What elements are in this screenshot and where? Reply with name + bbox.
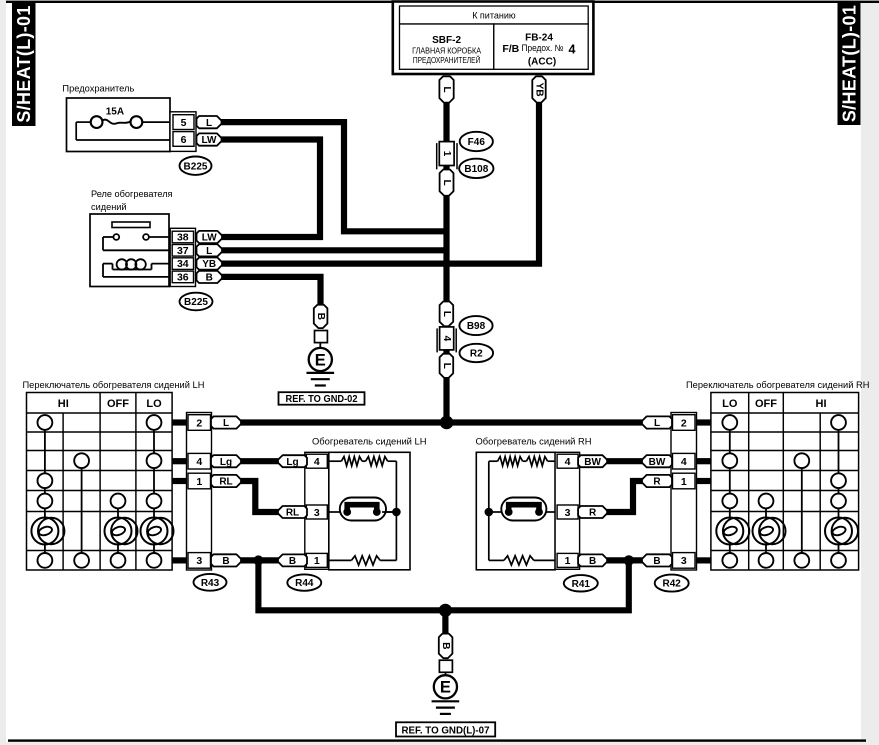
- wire L from SBF-2 down to bus: [443, 98, 449, 424]
- terminal 37 L: [197, 244, 223, 256]
- connector label R43: [194, 574, 227, 591]
- stub LH switch pin1: [172, 478, 188, 484]
- label REF. TO GND-02: [279, 392, 365, 405]
- power box К питанию: [393, 2, 594, 75]
- stub LH switch pin4: [172, 458, 188, 464]
- terminal 2 L RH: [642, 416, 672, 428]
- stub RH switch pin1: [695, 478, 711, 484]
- RH switch contacts column LO: [729, 430, 731, 453]
- svg-text:B98: B98: [467, 321, 486, 332]
- RH heater connector R41: [555, 452, 580, 569]
- svg-text:2: 2: [196, 417, 202, 429]
- terminal B ground branch: [314, 305, 328, 328]
- RH heater element bottom: [489, 559, 504, 561]
- terminal 1 RL LH: [211, 475, 241, 487]
- LH heater box: [329, 452, 410, 570]
- fuse element circles: [76, 121, 91, 123]
- svg-text:B225: B225: [184, 161, 208, 172]
- terminal 3 R heater RH: [578, 506, 607, 518]
- svg-text:R: R: [653, 477, 661, 488]
- svg-text:3: 3: [565, 507, 571, 519]
- connector label R41: [564, 575, 598, 591]
- RH thermal switch: [489, 511, 502, 513]
- stub LH switch pin3: [172, 557, 188, 563]
- svg-text:F/B: F/B: [502, 43, 519, 55]
- terminal 4 Lg LH: [211, 455, 241, 467]
- terminal 34 YB: [197, 258, 223, 270]
- LH heater element bottom: [329, 559, 352, 561]
- svg-text:Обогреватель сидений LH: Обогреватель сидений LH: [312, 435, 427, 446]
- terminal 36 B: [197, 271, 223, 283]
- svg-text:E: E: [440, 679, 451, 697]
- terminal 3 B RH: [642, 554, 672, 566]
- svg-text:OFF: OFF: [755, 398, 777, 410]
- svg-text:1: 1: [565, 555, 571, 567]
- svg-text:Переключатель обогревателя сид: Переключатель обогревателя сидений RH: [686, 380, 869, 390]
- ground symbol GND-02: [307, 372, 335, 374]
- svg-text:Обогреватель сидений RH: Обогреватель сидений RH: [476, 435, 592, 446]
- svg-text:L: L: [654, 418, 660, 429]
- junction dot RH heater: [485, 508, 494, 517]
- stub RH switch pin2: [695, 419, 711, 425]
- svg-text:LO: LO: [722, 398, 738, 410]
- connector label B98: [459, 316, 492, 335]
- svg-text:L: L: [223, 418, 229, 429]
- svg-text:L: L: [441, 87, 452, 93]
- terminal 3 RL heater LH: [278, 506, 307, 518]
- svg-text:R43: R43: [201, 578, 220, 589]
- wire LH row Lg switch to heater: [238, 458, 281, 464]
- svg-text:36: 36: [177, 272, 189, 284]
- svg-text:LW: LW: [202, 135, 218, 146]
- svg-text:3: 3: [196, 555, 202, 567]
- svg-text:YB: YB: [202, 259, 216, 270]
- terminal L below connector 4: [440, 354, 454, 378]
- connector label R44: [287, 574, 321, 590]
- svg-text:B: B: [315, 313, 326, 320]
- connector label R42: [655, 575, 689, 592]
- terminal B bottom ground: [439, 634, 453, 659]
- relay contact: [103, 236, 113, 238]
- RH heater box: [476, 452, 555, 570]
- junction dot RH B: [624, 555, 634, 565]
- svg-text:Реле обогревателя: Реле обогревателя: [91, 189, 173, 199]
- relay box: [90, 214, 169, 287]
- wire fuse pin5 L to L vertical: [218, 122, 449, 231]
- ground symbol GND(L)-07: [432, 700, 460, 702]
- terminal 1 B heater LH: [278, 554, 307, 566]
- LH thermal switch: [329, 511, 340, 513]
- svg-text:ПРЕДОХРАНИТЕЛЕЙ: ПРЕДОХРАНИТЕЛЕЙ: [413, 56, 481, 65]
- junction dot LH heater: [392, 508, 401, 517]
- svg-text:1: 1: [314, 555, 320, 567]
- svg-text:6: 6: [181, 134, 187, 146]
- box FB-24 fuse No 4 ACC: [494, 24, 588, 69]
- connector label B225 relay: [180, 293, 213, 311]
- svg-text:5: 5: [181, 117, 187, 129]
- connector label R2: [460, 344, 494, 362]
- bottom border line: [8, 739, 866, 741]
- wire relay pin36 B to ground connector: [218, 277, 321, 306]
- terminal YB below FB-24: [532, 76, 545, 102]
- svg-text:3: 3: [681, 555, 687, 567]
- stub LH switch pin2: [172, 419, 188, 425]
- wire RH row R heater pin3 to switch pin1: [604, 481, 646, 512]
- wire LH row RL switch to heater pin3: [238, 481, 281, 512]
- LH heater element top: [329, 460, 342, 462]
- svg-text:L: L: [441, 311, 452, 317]
- svg-text:B225: B225: [184, 297, 208, 308]
- terminal 1 B heater RH: [578, 554, 607, 566]
- svg-text:E: E: [315, 351, 326, 369]
- svg-text:2: 2: [681, 417, 687, 429]
- terminal 4 BW RH: [642, 455, 672, 467]
- connector box bottom ground: [439, 660, 452, 672]
- svg-text:BW: BW: [584, 457, 601, 468]
- svg-text:R: R: [589, 508, 597, 519]
- svg-text:(ACC): (ACC): [528, 57, 556, 68]
- svg-text:REF. TO GND-02: REF. TO GND-02: [286, 394, 359, 405]
- svg-text:ГЛАВНАЯ КОРОБКА: ГЛАВНАЯ КОРОБКА: [412, 47, 482, 56]
- fuse box 15A: [67, 98, 171, 152]
- wire relay pin37 L to vertical: [218, 247, 449, 253]
- ground E circle GND-02: [319, 343, 321, 348]
- RH heater left vertical: [488, 461, 490, 560]
- svg-text:FB-24: FB-24: [525, 33, 553, 44]
- svg-text:R44: R44: [295, 578, 314, 589]
- wire ground drop: [442, 610, 448, 636]
- wire LH row B switch to heater: [238, 557, 281, 563]
- svg-text:3: 3: [314, 507, 320, 519]
- top border line: [6, 1, 879, 3]
- svg-text:BW: BW: [649, 457, 666, 468]
- svg-text:RL: RL: [286, 508, 299, 519]
- page label bar left S/HEAT(L)-01: [12, 2, 36, 126]
- ground E circle GND(L)-07: [434, 675, 457, 698]
- bottom ground bus U shape: [258, 560, 628, 610]
- LH heater connector R44: [305, 452, 329, 569]
- svg-text:LO: LO: [146, 398, 162, 410]
- svg-text:сидений: сидений: [91, 202, 127, 212]
- svg-text:4: 4: [441, 336, 452, 342]
- page label bar right S/HEAT(L)-01: [838, 2, 861, 125]
- wire RH row BW heater to switch: [604, 458, 646, 464]
- terminal 4 BW heater RH: [578, 455, 607, 467]
- svg-text:L: L: [206, 246, 212, 257]
- svg-text:REF. TO GND(L)-07: REF. TO GND(L)-07: [402, 725, 490, 736]
- RH heater element top: [489, 460, 498, 462]
- svg-text:LW: LW: [202, 233, 218, 244]
- LH switch contacts column LO: [153, 430, 155, 453]
- connector label B108: [459, 159, 493, 178]
- svg-text:L: L: [441, 363, 452, 369]
- terminal L below connector 1: [440, 170, 454, 196]
- svg-text:YB: YB: [534, 83, 545, 97]
- connector box ground branch: [315, 331, 328, 343]
- svg-text:Предохранитель: Предохранитель: [62, 84, 134, 94]
- terminal 2 L LH: [211, 416, 241, 428]
- terminal 3 B LH: [211, 554, 241, 566]
- RH switch contacts column OFF: [765, 508, 767, 517]
- svg-text:SBF-2: SBF-2: [432, 35, 461, 46]
- svg-text:Lg: Lg: [286, 457, 298, 468]
- LH switch connector R43: [187, 413, 212, 571]
- wire YB from FB-24 down to relay pin 34: [218, 98, 539, 264]
- svg-text:B: B: [289, 556, 296, 567]
- connector label F46: [460, 132, 493, 151]
- svg-text:К питанию: К питанию: [472, 11, 516, 21]
- svg-text:4: 4: [565, 456, 571, 468]
- LH switch contacts column OFF: [117, 508, 119, 517]
- svg-text:OFF: OFF: [107, 398, 129, 410]
- svg-text:L: L: [206, 118, 212, 129]
- svg-text:4: 4: [196, 456, 202, 468]
- svg-text:4: 4: [569, 43, 576, 57]
- stub RH switch pin4: [695, 458, 711, 464]
- svg-text:B: B: [440, 642, 451, 649]
- terminal L above connector 4: [440, 302, 454, 327]
- svg-text:1: 1: [196, 476, 202, 488]
- label REF. TO GND(L)-07: [396, 722, 495, 736]
- svg-text:15A: 15A: [106, 107, 124, 118]
- terminal 6 LW: [197, 133, 222, 145]
- terminal 5 L: [197, 116, 222, 128]
- svg-text:4: 4: [681, 456, 687, 468]
- svg-text:Lg: Lg: [220, 457, 232, 468]
- svg-text:B: B: [222, 556, 229, 567]
- svg-text:1: 1: [681, 476, 687, 488]
- svg-text:R2: R2: [470, 349, 483, 360]
- relay connector block B225 pins 38/37/34/36: [170, 228, 195, 286]
- LH switch contacts column HI-1: [44, 430, 46, 473]
- in-line connector 1 F46/B108: [436, 143, 438, 169]
- LH switch contacts column HI-2: [81, 468, 83, 553]
- svg-text:B: B: [653, 556, 660, 567]
- svg-text:S/HEAT(L)-01: S/HEAT(L)-01: [14, 5, 34, 122]
- svg-text:1: 1: [441, 151, 452, 157]
- svg-text:B: B: [206, 273, 213, 284]
- svg-text:Предох. №: Предох. №: [522, 43, 564, 53]
- svg-text:R41: R41: [572, 579, 591, 590]
- box SBF-2 main fuse box: [400, 24, 494, 69]
- svg-text:HI: HI: [58, 398, 69, 410]
- svg-text:F46: F46: [468, 137, 486, 148]
- junction dot bottom bus: [439, 604, 452, 617]
- svg-text:RL: RL: [219, 477, 232, 488]
- svg-text:B108: B108: [464, 164, 488, 175]
- svg-text:R42: R42: [663, 579, 682, 590]
- svg-text:37: 37: [177, 245, 189, 257]
- terminal 4 Lg heater LH: [278, 455, 307, 467]
- relay coil: [103, 263, 113, 265]
- svg-text:HI: HI: [816, 398, 827, 410]
- svg-text:L: L: [441, 180, 452, 186]
- connector label B225 fuse: [180, 157, 212, 175]
- RH switch connector R42: [671, 413, 697, 571]
- svg-text:38: 38: [177, 232, 189, 244]
- terminal 1 R RH: [642, 475, 672, 487]
- terminal 38 LW: [197, 231, 223, 243]
- svg-text:Переключатель обогревателя сид: Переключатель обогревателя сидений LH: [23, 380, 205, 390]
- terminal L below SBF-2: [439, 76, 453, 102]
- svg-text:S/HEAT(L)-01: S/HEAT(L)-01: [839, 5, 859, 122]
- main bus row L to both switches: [232, 419, 652, 425]
- relay armature bar: [112, 222, 150, 228]
- fuse connector block B225 pins 5/6: [170, 112, 196, 152]
- svg-text:B: B: [589, 556, 596, 567]
- svg-text:4: 4: [314, 456, 320, 468]
- junction dot bus: [440, 416, 454, 430]
- junction dot LH B: [253, 555, 263, 565]
- svg-text:34: 34: [177, 258, 189, 270]
- wire RH row B heater to switch: [604, 557, 646, 563]
- stub RH switch pin3: [695, 557, 711, 563]
- LH heater right vertical: [395, 461, 397, 560]
- RH switch contacts column HI-1: [801, 468, 803, 553]
- RH switch contacts column HI-2: [838, 430, 840, 473]
- wire fuse pin6 LW to relay pin38: [218, 140, 320, 238]
